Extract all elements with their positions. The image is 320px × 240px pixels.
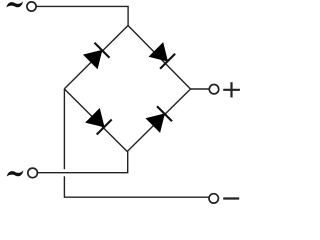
plus sign label	[223, 82, 240, 97]
wire: AC2 terminal to bottom node	[38, 152, 128, 173]
wire: diamond lower-left side (L to B)	[64, 89, 127, 152]
wire: AC1 terminal to top node	[37, 6, 129, 25]
diode D2 cathode bar	[160, 54, 175, 69]
+ output terminal circle	[209, 85, 218, 94]
wire: right node to + terminal	[191, 88, 209, 90]
diode D2 triangle (upper-right arm, points to + node)	[149, 43, 167, 61]
diode D1 cathode bar	[95, 43, 110, 58]
wire: left node down, upper segment (before crossover gap)	[63, 89, 65, 169]
wire: diamond upper-right side (T to R)	[128, 26, 191, 90]
diode D4 cathode bar	[157, 106, 172, 121]
wire: left node down, lower segment and bottom rail to - terminal	[64, 176, 209, 197]
- output terminal circle	[209, 194, 218, 203]
AC input 2 tilde symbol	[7, 170, 24, 176]
diode D3 cathode bar	[97, 120, 112, 135]
AC input terminal 1 circle	[27, 2, 36, 11]
wire: diamond upper-left side (L to T)	[64, 26, 128, 89]
minus sign label	[223, 197, 239, 199]
diode D3 triangle (lower-left arm, points to bottom node)	[86, 109, 104, 127]
diode D4 triangle (lower-right arm, points to + node)	[146, 114, 164, 132]
AC input 1 tilde symbol	[6, 1, 23, 7]
wire: diamond lower-right side (B to R)	[127, 89, 190, 152]
diode D1 triangle (upper-left arm, points to top node)	[84, 50, 102, 68]
AC input terminal 2 circle	[28, 168, 38, 178]
